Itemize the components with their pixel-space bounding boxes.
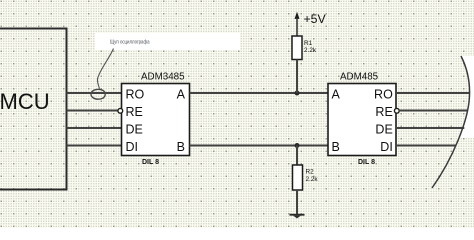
wire R2 to ground <box>296 190 298 215</box>
svg-text:DE: DE <box>126 123 143 137</box>
junction node on net B <box>295 143 300 148</box>
svg-text:ADM485: ADM485 <box>340 71 379 82</box>
svg-text:DIL 8: DIL 8 <box>358 159 375 166</box>
svg-text:2.2k: 2.2k <box>304 47 317 54</box>
+5V power symbol arrow <box>295 12 300 19</box>
wire U2 RE to right edge <box>399 110 467 112</box>
svg-text:MCU: MCU <box>0 89 50 114</box>
wire R1 to net A <box>296 60 298 94</box>
white-out band around probe label <box>95 33 240 50</box>
svg-text:RE: RE <box>375 105 392 119</box>
svg-text:DI: DI <box>126 140 139 154</box>
ground symbol <box>290 215 305 219</box>
svg-text:A: A <box>177 87 186 101</box>
svg-text:+5V: +5V <box>304 12 327 26</box>
svg-text:DI: DI <box>380 140 393 154</box>
IC U1 ADM3485 body <box>122 84 190 156</box>
svg-text:Щуп осциллографа: Щуп осциллографа <box>110 40 150 46</box>
U2 inversion bubble on RE pin <box>394 108 399 113</box>
svg-text:B: B <box>177 140 185 154</box>
svg-text:B: B <box>332 140 340 154</box>
wire MCU to ADM3485 RO (net 1) <box>67 92 122 94</box>
wire net B to R2 <box>296 146 298 166</box>
svg-text:RO: RO <box>374 87 393 101</box>
junction node on net A <box>295 91 300 96</box>
wire U2 DI to right edge <box>396 145 456 147</box>
wire MCU to ADM3485 DE (net 3) <box>67 127 122 129</box>
svg-text:RO: RO <box>126 87 145 101</box>
MCU box U3 <box>0 29 67 190</box>
svg-text:DE: DE <box>375 123 392 137</box>
svg-text:A: A <box>332 87 341 101</box>
svg-text:2.2k: 2.2k <box>306 176 319 183</box>
wire U2 RO to right edge <box>396 92 469 94</box>
resistor R2 body <box>293 165 303 190</box>
svg-text:DIL 8: DIL 8 <box>142 159 159 166</box>
wire U2 DE to right edge <box>396 127 464 129</box>
IC U2 ADM485 body <box>328 84 396 156</box>
U1 inversion bubble on RE pin <box>118 108 123 113</box>
white-out area right of tear curve <box>458 56 474 138</box>
probe circle on RO wire <box>91 89 105 99</box>
wire MCU to ADM3485 DI (net 4) <box>67 145 122 147</box>
svg-text:RE: RE <box>126 105 143 119</box>
svg-text:R2: R2 <box>306 169 315 176</box>
wire net A between U1 and U2 <box>190 92 329 94</box>
probe pointer line <box>97 49 113 89</box>
tear continuation curve <box>432 56 470 188</box>
wire MCU to ADM3485 RE (net 2) <box>67 110 118 112</box>
resistor R1 body <box>292 36 302 60</box>
wire net B between U1 and U2 <box>190 145 329 147</box>
svg-text:ADM3485: ADM3485 <box>141 71 185 82</box>
